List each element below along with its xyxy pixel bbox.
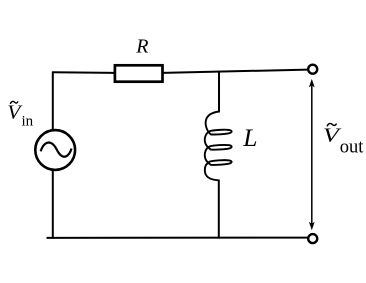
arrow head top (309, 79, 315, 88)
source V1 circle (35, 130, 75, 170)
svg-text:R: R (135, 36, 148, 58)
source V1 sine wave (41, 143, 72, 157)
svg-text:L: L (242, 123, 257, 152)
svg-text:V: V (7, 102, 23, 123)
label Vout tilde (327, 123, 336, 126)
wire: top rail right segment (163, 70, 308, 73)
wire: top rail left segment (52, 71, 114, 74)
terminal: output top (308, 65, 317, 74)
wire: left vertical above source (52, 71, 54, 130)
label Vin tilde (10, 101, 18, 104)
arrow: Vout measurement line (311, 85, 313, 225)
wire: bottom rail (47, 237, 308, 239)
wire: inductor branch bottom (218, 180, 220, 239)
resistor R body (115, 65, 163, 81)
inductor L coil (205, 112, 232, 181)
svg-text:out: out (340, 138, 365, 158)
svg-text:in: in (22, 114, 34, 130)
terminal: output bottom (308, 234, 317, 243)
wire: inductor branch top (218, 71, 220, 113)
wire: left vertical below source (52, 170, 54, 239)
arrow head bottom (309, 222, 315, 231)
